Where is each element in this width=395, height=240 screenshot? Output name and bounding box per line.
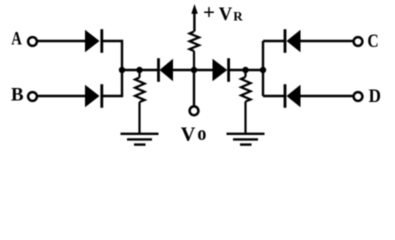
svg-text:+: + <box>203 0 215 24</box>
diode D1 (input A) <box>85 29 102 53</box>
wire node F to diode D5 <box>263 40 285 42</box>
junction node E <box>119 67 125 73</box>
ground (right) <box>227 134 265 145</box>
wire node E to resistor node <box>122 69 158 71</box>
wire center node to Vo terminal <box>193 70 195 106</box>
wire A to diode <box>38 40 86 42</box>
output terminal C <box>354 37 363 46</box>
label Vo <box>181 123 207 146</box>
svg-text:C: C <box>367 31 378 52</box>
svg-text:B: B <box>11 85 24 106</box>
junction right resistor node <box>242 67 248 73</box>
input terminal B <box>28 92 37 101</box>
wire node F vertical <box>262 41 264 96</box>
junction center node <box>191 67 197 73</box>
label +VR <box>203 0 243 25</box>
svg-text:V: V <box>219 4 233 25</box>
output terminal Vo <box>190 106 199 115</box>
resistor R2 (supply VR) <box>190 32 200 71</box>
diode D6 (output D, cathode left) <box>285 84 301 108</box>
diode D5 (output C, cathode left) <box>285 29 301 53</box>
wire D4 to right node <box>229 69 263 71</box>
output terminal D <box>354 92 363 101</box>
wire diode D1 to node E <box>102 41 122 70</box>
svg-text:A: A <box>11 29 22 50</box>
resistor R3 (right, to ground) <box>241 70 251 133</box>
wire diode D6 to terminal D <box>301 95 354 97</box>
resistor R1 (left, to ground) <box>135 70 145 133</box>
svg-text:V: V <box>181 123 196 145</box>
supply arrow +VR <box>191 4 198 32</box>
wire node F to diode D6 <box>263 95 285 97</box>
wire B to diode <box>38 95 86 97</box>
wire diode D5 to terminal C <box>301 40 354 42</box>
wire diode D2 to node E <box>102 70 122 96</box>
ground (left) <box>121 134 159 145</box>
svg-text:D: D <box>369 86 381 107</box>
wire D3 to center node <box>173 69 213 71</box>
svg-text:R: R <box>233 9 243 24</box>
svg-text:o: o <box>197 123 206 145</box>
junction node F <box>260 67 266 73</box>
input terminal A <box>28 37 37 46</box>
diode D2 (input B) <box>85 84 102 108</box>
diode D4 (middle right, cathode right) <box>213 58 229 82</box>
junction left resistor node <box>136 67 142 73</box>
diode D3 (middle left, cathode left) <box>159 58 174 82</box>
